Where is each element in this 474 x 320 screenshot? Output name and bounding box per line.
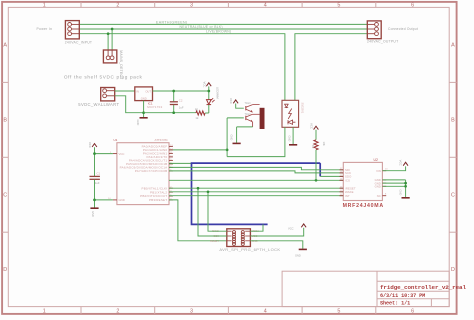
U2 left pin stubs and names <box>340 169 344 171</box>
svg-text:PB3/RESET: PB3/RESET <box>149 198 167 202</box>
svg-text:GND: GND <box>141 96 147 100</box>
svg-text:AVR_SPI_PRG_6PTH_LOCK: AVR_SPI_PRG_6PTH_LOCK <box>219 247 280 252</box>
frame column ticks <box>80 2 82 8</box>
svg-text:U1: U1 <box>114 138 118 142</box>
wire R2 to CS junction <box>315 150 317 181</box>
svg-text:240VAC_INPUT: 240VAC_INPUT <box>65 40 92 44</box>
svg-text:OUT: OUT <box>145 90 151 94</box>
wire SSR bottom left pin down and left <box>227 127 285 156</box>
wire VCC arrow to LED anode <box>208 86 210 99</box>
MCU right side pin stubs lower group <box>169 187 173 189</box>
connector X2 240VAC_OUTPUT box <box>367 21 381 39</box>
wire MCU pin2 to drive riser <box>169 149 227 151</box>
junction 5V rail to LED branch <box>207 90 210 93</box>
junction C2 top on 5V rail <box>172 90 175 93</box>
junction MISO riser <box>207 190 210 193</box>
svg-text:3: 3 <box>190 309 193 315</box>
connector X3 mains sense box <box>103 50 116 63</box>
frame row ticks <box>2 81 8 83</box>
wire SSR bottom right pin to ground <box>292 127 294 144</box>
junction SCK riser <box>197 187 200 190</box>
svg-text:VCC: VCC <box>229 98 233 104</box>
wire LIVE switched segment to output <box>295 34 367 101</box>
junction regulator gnd on rail <box>142 111 145 114</box>
U2 NC stub <box>382 195 386 197</box>
relay contact 1 symbol <box>245 106 247 110</box>
svg-text:PA7/ADC7/ICP/OC0B: PA7/ADC7/ICP/OC0B <box>135 169 168 173</box>
VCC arrow on 5V rail <box>206 83 211 86</box>
svg-text:T1G4: T1G4 <box>245 102 252 105</box>
capacitor C2 plates <box>170 101 178 103</box>
svg-text:GND: GND <box>91 211 95 217</box>
thick blue bus corner down to U2 SDO <box>319 163 321 176</box>
svg-text:Power In: Power In <box>37 27 53 31</box>
svg-text:VCC: VCC <box>119 152 125 156</box>
wire regulator OUT 5V rail <box>153 90 209 92</box>
connector X1 pin circles <box>68 23 72 27</box>
capacitor C2 stems <box>173 91 175 101</box>
svg-text:3: 3 <box>190 3 193 9</box>
svg-text:10k: 10k <box>322 142 326 147</box>
junction drive riser at MCU pin wire <box>226 149 229 152</box>
MCU U1 box <box>117 143 169 205</box>
wire MCU drive vertical riser <box>226 118 228 157</box>
svg-text:6: 6 <box>411 3 414 9</box>
wire regulator GND stem <box>143 101 145 118</box>
svg-text:R1: R1 <box>195 108 199 112</box>
ground symbol at U2 <box>402 197 410 199</box>
ground symbol at relay <box>233 142 241 144</box>
svg-text:/CS: /CS <box>345 179 350 183</box>
wire blue bus end to U2 SDO pin <box>320 175 343 177</box>
svg-text:2: 2 <box>116 309 119 315</box>
svg-text:6/3/11 10:37 PM: 6/3/11 10:37 PM <box>380 293 425 299</box>
wire ground rail under C2 and R1 <box>144 112 196 114</box>
ISP header box <box>227 229 251 247</box>
svg-text:U2: U2 <box>374 158 378 162</box>
svg-text:INT: INT <box>345 194 350 198</box>
wire MCU RESET down to ISP header <box>169 200 227 241</box>
VCC arrow at ISP <box>301 224 306 227</box>
svg-text:Sheet: 1/1: Sheet: 1/1 <box>380 301 410 307</box>
junction CS pullup <box>315 179 318 182</box>
svg-text:T1G4: T1G4 <box>245 113 252 116</box>
wire MCU pin7 to U2 SDI <box>169 167 343 169</box>
wire LIVE net left segment <box>79 34 285 101</box>
LED D1 symbol <box>207 100 212 105</box>
junction VCC rail <box>93 152 96 155</box>
svg-text:NEUTRAL(BLUE or BLK): NEUTRAL(BLUE or BLK) <box>180 25 223 29</box>
wire VCC to contact 1 <box>236 104 244 109</box>
voltage regulator IC1 box <box>135 87 153 101</box>
SSR internal lightning symbol <box>288 109 292 120</box>
svg-text:C2: C2 <box>179 99 183 103</box>
VCC arrow at U2 <box>403 162 408 165</box>
wire CS net to U2 /CS <box>169 179 343 181</box>
wire ISP SCK riser <box>198 188 227 236</box>
wire MCU GND pin to ground rail <box>95 199 113 201</box>
svg-text:NC: NC <box>377 194 381 198</box>
SSR internal triac symbol <box>288 120 295 124</box>
U2 right pin stubs <box>382 170 386 172</box>
wire ISP MISO riser <box>208 192 227 231</box>
wire ISP GND pin right <box>250 241 302 249</box>
wire ISP MOSI to blue bus <box>250 224 263 231</box>
wire NEUTRAL net <box>79 28 367 30</box>
svg-text:1uF: 1uF <box>95 181 100 185</box>
resistor R2 zigzag vertical <box>314 140 318 150</box>
wire mains-detect drop from LIVE <box>107 34 109 50</box>
ground symbol under regulator <box>140 117 148 119</box>
VCC arrow above R2 <box>314 126 319 129</box>
svg-text:D: D <box>3 267 7 273</box>
module U2 box <box>343 162 382 200</box>
svg-text:S102S01: S102S01 <box>301 103 305 114</box>
wire LED cathode to R1 <box>208 105 210 113</box>
svg-text:EARTH(GREEN): EARTH(GREEN) <box>156 20 188 24</box>
svg-text:240VAC_OUTPUT: 240VAC_OUTPUT <box>367 40 398 44</box>
svg-text:1uF: 1uF <box>179 105 184 109</box>
svg-text:1: 1 <box>43 3 46 9</box>
wire MCU drive to contact 2 base <box>227 117 244 119</box>
relay contact links to coil <box>253 104 260 106</box>
wire C1 bottom to ground <box>94 180 96 208</box>
svg-text:VCC: VCC <box>202 82 206 88</box>
svg-text:LED5MM: LED5MM <box>216 87 220 99</box>
svg-text:B: B <box>451 118 455 124</box>
capacitor C1 plates <box>90 175 100 177</box>
wire MCU PB0 to U2 /RESET <box>169 187 343 189</box>
connector X3 pin circles <box>106 56 110 60</box>
svg-text:MRF24J40MA: MRF24J40MA <box>343 203 384 209</box>
MCU right side pin stubs upper group <box>169 145 173 147</box>
svg-text:A: A <box>3 43 7 49</box>
svg-text:GND: GND <box>136 120 140 126</box>
resistor R1 zigzag <box>196 111 205 115</box>
svg-text:GND: GND <box>229 135 233 141</box>
connector X4 5VDC_WALLWART box <box>101 88 115 101</box>
svg-text:B: B <box>3 118 7 124</box>
svg-text:Connected Output: Connected Output <box>388 27 418 31</box>
wire U2 VIN to VCC <box>382 166 405 170</box>
junction ground rail <box>93 199 96 202</box>
ground symbol under SSR <box>289 144 297 146</box>
svg-text:5: 5 <box>337 3 340 9</box>
svg-text:D: D <box>451 267 455 273</box>
relay contact 2 symbol <box>245 116 247 120</box>
svg-text:VCC: VCC <box>88 142 92 148</box>
ground symbol at ISP <box>299 248 307 250</box>
wire U2 ground riser <box>405 180 407 197</box>
svg-text:Off the shelf 5VDC plug pack: Off the shelf 5VDC plug pack <box>64 75 143 80</box>
svg-text:VCC: VCC <box>288 227 294 231</box>
wire wallwart +5V to regulator IN <box>115 90 135 92</box>
relay coil solid bar <box>260 108 265 129</box>
svg-text:4: 4 <box>264 3 267 9</box>
svg-text:VCC: VCC <box>399 160 403 166</box>
connector X4 pin circles <box>103 89 107 93</box>
junction on LIVE at mains-detect tap <box>107 32 110 35</box>
svg-text:6: 6 <box>411 309 414 315</box>
title block divider vertical <box>376 271 378 306</box>
thick blue bus MOSI net <box>192 163 321 224</box>
wire contact 2 emitter to ground <box>252 122 254 127</box>
svg-text:GND: GND <box>119 198 125 202</box>
svg-text:VIN: VIN <box>376 169 381 173</box>
junctions U2 ground riser <box>404 182 407 185</box>
SSR OK1 box <box>282 100 299 127</box>
junction on NEUTRAL at mains-detect tap <box>111 28 114 31</box>
svg-text:IN: IN <box>136 90 139 94</box>
wire MCU pin8 to U2 SCK <box>169 171 343 173</box>
svg-text:4: 4 <box>264 309 267 315</box>
ground symbol under C1 <box>90 207 98 209</box>
wire mains-detect drop from NEUTRAL <box>111 29 113 50</box>
connector X1 240VAC_INPUT box <box>65 21 79 39</box>
svg-text:ATTINY84: ATTINY84 <box>155 138 168 142</box>
svg-text:2: 2 <box>116 3 119 9</box>
svg-text:RESET: RESET <box>210 239 219 243</box>
connector X2 pin circles <box>375 23 379 27</box>
title block outline <box>282 271 449 306</box>
svg-text:5: 5 <box>337 309 340 315</box>
wires U2 GND pins to ground <box>382 179 405 181</box>
svg-text:LIVE(BROWN): LIVE(BROWN) <box>206 30 231 34</box>
svg-text:MCP1702: MCP1702 <box>147 105 162 109</box>
svg-text:GND: GND <box>287 136 291 142</box>
wire MCU PB2 to U2 INT <box>169 195 343 197</box>
VCC arrow at relay <box>233 100 238 103</box>
MCU pin6 stub to blue bus <box>169 162 192 164</box>
wire EARTH net <box>79 23 367 25</box>
wire ISP VCC pin right <box>250 228 303 236</box>
svg-text:A: A <box>451 43 455 49</box>
ISP header pin circles <box>232 231 235 234</box>
wire MCU PB1 to U2 WAKE <box>169 191 343 193</box>
svg-text:GND: GND <box>295 254 301 258</box>
svg-text:5VDC_WALLWART: 5VDC_WALLWART <box>78 102 119 107</box>
title block row lines <box>377 280 449 282</box>
svg-text:GND: GND <box>375 185 381 189</box>
SSR internal led symbol <box>284 104 288 107</box>
svg-text:C: C <box>3 192 7 198</box>
svg-text:R2: R2 <box>311 145 315 149</box>
wire VCC to R2 <box>315 130 317 140</box>
wire VCC rail down to C1 <box>94 147 96 176</box>
wire VCC rail to MCU VCC pin <box>95 153 113 155</box>
wire wallwart return to ground rail <box>115 96 144 113</box>
svg-text:fridge_controller_v2_real: fridge_controller_v2_real <box>380 284 466 291</box>
MCU left pin VCC <box>113 153 117 155</box>
VCC arrow left of MCU <box>92 144 97 147</box>
svg-text:C: C <box>451 192 455 198</box>
svg-text:1: 1 <box>43 309 46 315</box>
svg-text:GND: GND <box>398 190 402 196</box>
svg-text:C1: C1 <box>97 172 101 176</box>
MCU left pin GND <box>113 199 117 201</box>
junction C2 bottom on ground rail <box>172 111 175 114</box>
svg-text:VCC: VCC <box>309 123 313 129</box>
